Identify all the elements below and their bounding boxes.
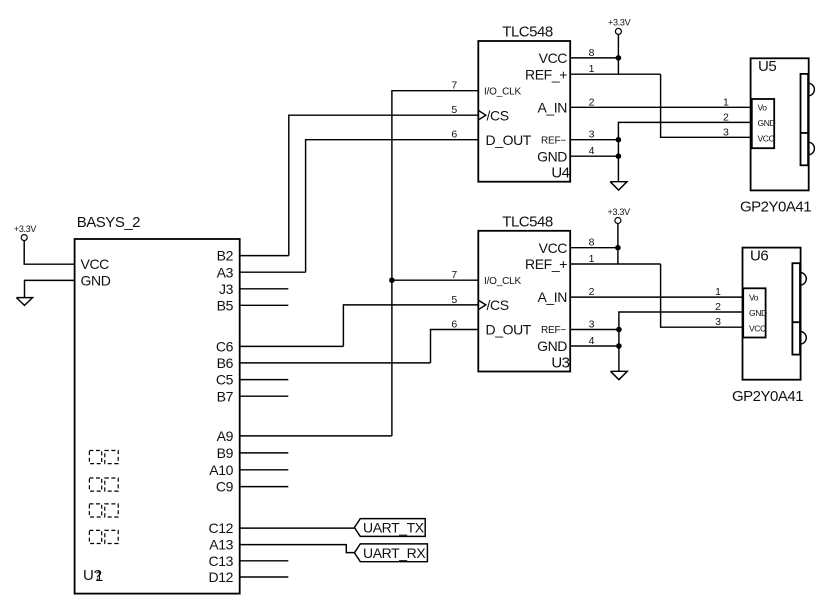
svg-text:B5: B5 <box>217 297 234 313</box>
wire A3 to D_OUT U4 <box>306 140 479 273</box>
pin A3 <box>217 264 306 280</box>
ground GND2 <box>610 182 627 190</box>
svg-text:A9: A9 <box>217 428 234 444</box>
pin C9 <box>216 479 288 495</box>
pin VCC U4 (8) <box>539 47 619 66</box>
svg-text:C12: C12 <box>209 520 234 536</box>
svg-text:1: 1 <box>723 96 729 108</box>
pin C6 <box>216 339 344 355</box>
pin D_OUT U4 (6) <box>451 129 531 148</box>
svg-text:B7: B7 <box>217 388 234 404</box>
svg-text:B9: B9 <box>217 445 234 461</box>
svg-text:C13: C13 <box>209 553 234 569</box>
svg-text:REF_+: REF_+ <box>525 256 567 272</box>
pin Vo U6 (1) <box>715 286 759 302</box>
7seg dashed squares row1 <box>89 451 118 464</box>
svg-text:GND: GND <box>749 308 767 318</box>
svg-text:Vo: Vo <box>758 103 768 113</box>
svg-text:U: U <box>83 567 93 584</box>
pin B9 <box>217 445 289 461</box>
pin /CS U3 (5) with clock wedge <box>451 294 508 313</box>
svg-text:8: 8 <box>589 47 595 59</box>
pin C5 <box>216 372 288 388</box>
svg-text:GP2Y0A41: GP2Y0A41 <box>740 199 811 216</box>
svg-text:8: 8 <box>589 237 595 249</box>
svg-text:BASYS_2: BASYS_2 <box>77 214 140 231</box>
7seg dashed squares row2 <box>89 478 118 491</box>
svg-text:2: 2 <box>715 301 721 313</box>
svg-text:/CS: /CS <box>487 107 509 123</box>
7seg dashed squares row3 <box>89 504 118 517</box>
component TLC548 U3 body <box>478 231 570 372</box>
svg-text:U6: U6 <box>750 247 768 264</box>
wire C6 to /CS U3 <box>343 305 478 347</box>
pin Vo U5 (1) <box>723 96 767 112</box>
svg-text:Vo: Vo <box>749 292 759 302</box>
junction GND U4 <box>616 153 622 159</box>
pin GND U4 (4) <box>537 145 618 164</box>
svg-text:3: 3 <box>715 316 721 328</box>
svg-text:GND: GND <box>758 118 776 128</box>
svg-text:B2: B2 <box>217 248 234 264</box>
svg-text:VCC: VCC <box>539 50 568 66</box>
svg-text:VCC: VCC <box>81 256 110 272</box>
pin B2 <box>217 248 289 264</box>
svg-text:A_IN: A_IN <box>537 99 567 115</box>
pin B5 <box>217 297 289 313</box>
svg-text:7: 7 <box>451 269 457 281</box>
pin J3 <box>219 281 288 297</box>
pin A_IN U4 (2) <box>537 96 751 115</box>
svg-text:/CS: /CS <box>487 297 509 313</box>
svg-text:6: 6 <box>451 129 457 141</box>
U5 connector box <box>752 99 774 148</box>
pin GND U3 (4) <box>537 335 619 354</box>
wire +3.3V to VCC U1 <box>24 240 74 264</box>
svg-text:+3.3V: +3.3V <box>608 207 631 217</box>
svg-text:2: 2 <box>723 111 729 123</box>
pin B7 <box>217 388 289 404</box>
svg-text:UART_TX: UART_TX <box>363 520 425 536</box>
wire GND U6 to REF- U3 <box>619 312 743 371</box>
junction GND U3 <box>616 343 622 349</box>
svg-text:2: 2 <box>589 286 595 298</box>
svg-text:D12: D12 <box>209 569 234 585</box>
svg-text:6: 6 <box>451 319 457 331</box>
U5 lens housing <box>801 74 809 165</box>
junction VCC U3 <box>615 245 621 251</box>
pin GND U6 (2) <box>715 301 767 318</box>
svg-text:REF−: REF− <box>541 325 566 336</box>
svg-text:U5: U5 <box>758 58 776 75</box>
svg-text:A3: A3 <box>217 264 234 280</box>
ground GND3 <box>611 371 628 379</box>
svg-text:TLC548: TLC548 <box>502 24 553 41</box>
svg-text:1: 1 <box>715 286 721 298</box>
U5 lens bump top <box>808 83 814 96</box>
U6 lens bump top <box>800 273 806 286</box>
svg-text:J3: J3 <box>219 281 234 297</box>
pin GND U5 (2) <box>723 111 775 128</box>
wire REF_+ to VCC U5 <box>661 74 752 137</box>
U5 lens bump bottom <box>808 142 814 155</box>
svg-text:D_OUT: D_OUT <box>486 132 532 148</box>
component GP2Y0A41 U5 body <box>751 58 809 190</box>
wire B2 to /CS U4 <box>289 115 479 255</box>
pin I/O_CLK U4 (7) <box>451 80 521 98</box>
svg-text:B6: B6 <box>217 355 234 371</box>
pin REF- U4 (3) <box>541 129 618 147</box>
svg-text:GND: GND <box>81 273 111 289</box>
pin D12 <box>209 569 289 585</box>
svg-text:3: 3 <box>589 319 595 331</box>
svg-text:4: 4 <box>589 145 595 157</box>
pin C12 <box>209 520 355 536</box>
component TLC548 U4 body <box>478 41 570 182</box>
svg-text:3: 3 <box>723 126 729 138</box>
svg-text:U4: U4 <box>551 165 569 182</box>
svg-text:4: 4 <box>589 335 595 347</box>
svg-text:I/O_CLK: I/O_CLK <box>484 86 521 97</box>
svg-text:3: 3 <box>589 129 595 141</box>
7seg dashed squares row4 <box>89 530 118 543</box>
svg-text:I/O_CLK: I/O_CLK <box>484 276 521 287</box>
svg-text:GP2Y0A41: GP2Y0A41 <box>732 388 803 405</box>
pin A10 <box>209 462 288 478</box>
svg-text:C5: C5 <box>216 372 234 388</box>
svg-text:GND: GND <box>537 338 567 354</box>
wire +3.3V PWR3 down to REF_+ U3 <box>617 223 619 264</box>
power +3.3V PWR3 <box>608 207 631 224</box>
wire I/O_CLK U3 branch <box>392 279 478 281</box>
pin REF_+ U4 (1) <box>525 63 661 82</box>
svg-text:1: 1 <box>589 63 595 75</box>
pin C13 <box>209 553 289 569</box>
pin REF_+ U3 (1) <box>525 253 661 272</box>
pin /CS U4 (5) with clock wedge <box>451 104 508 123</box>
svg-text:+3.3V: +3.3V <box>14 224 37 234</box>
component GP2Y0A41 U6 body <box>743 248 801 380</box>
svg-text:UART_RX: UART_RX <box>363 545 426 561</box>
svg-text:C6: C6 <box>216 339 234 355</box>
flag UART_RX <box>354 544 427 562</box>
svg-text:7: 7 <box>451 80 457 92</box>
svg-text:D_OUT: D_OUT <box>486 322 532 338</box>
flag UART_TX <box>354 519 425 537</box>
svg-text:1: 1 <box>95 568 103 585</box>
svg-text:VCC: VCC <box>749 323 766 333</box>
junction REF- U4 <box>616 137 622 143</box>
pin I/O_CLK U3 (7) <box>451 269 521 287</box>
pin A_IN U3 (2) <box>537 286 743 305</box>
svg-text:C9: C9 <box>216 479 234 495</box>
U6 connector box <box>743 288 765 337</box>
svg-text:A13: A13 <box>209 537 233 553</box>
power +3.3V PWR1 <box>14 224 37 241</box>
pin REF- U3 (3) <box>541 319 619 337</box>
svg-text:+3.3V: +3.3V <box>608 18 631 28</box>
wire GND U5 to REF- U4 <box>618 122 751 181</box>
svg-text:5: 5 <box>451 294 457 306</box>
svg-text:5: 5 <box>451 104 457 116</box>
svg-text:U3: U3 <box>551 354 569 371</box>
svg-text:VCC: VCC <box>758 134 775 144</box>
wire +3.3V PWR2 down to REF_+ <box>617 34 619 74</box>
junction VCC U4 <box>616 55 622 61</box>
pin B6 <box>217 355 431 371</box>
ground GND1 <box>16 298 32 306</box>
wire B6 to D_OUT U3 <box>431 330 479 363</box>
junction REF- U3 <box>616 327 622 333</box>
svg-text:1: 1 <box>589 253 595 265</box>
wire GND U1 to ground <box>25 280 75 297</box>
svg-text:TLC548: TLC548 <box>502 213 553 230</box>
wire A9 to I/O_CLK bus vertical <box>392 91 478 436</box>
pin A13 <box>209 537 354 553</box>
pin VCC U6 (3) <box>715 316 766 333</box>
pin D_OUT U3 (6) <box>451 319 531 338</box>
svg-text:A_IN: A_IN <box>537 289 567 305</box>
svg-text:REF−: REF− <box>541 135 566 146</box>
U6 lens bump bottom <box>800 332 806 345</box>
pin VCC U5 (3) <box>723 126 774 143</box>
wire REF_+ U3 to VCC U6 <box>661 264 744 327</box>
pin VCC U3 (8) <box>539 237 619 256</box>
junction I/O_CLK branch <box>389 277 395 283</box>
power +3.3V PWR2 <box>608 18 631 35</box>
label U1 reference <box>83 567 103 585</box>
U6 lens housing <box>792 263 800 354</box>
svg-text:2: 2 <box>589 96 595 108</box>
component BASYS_2 U1 body <box>75 239 240 594</box>
svg-text:GND: GND <box>537 148 567 164</box>
pin A9 <box>217 428 392 444</box>
svg-text:REF_+: REF_+ <box>525 66 567 82</box>
svg-text:A10: A10 <box>209 462 233 478</box>
svg-text:VCC: VCC <box>539 240 568 256</box>
